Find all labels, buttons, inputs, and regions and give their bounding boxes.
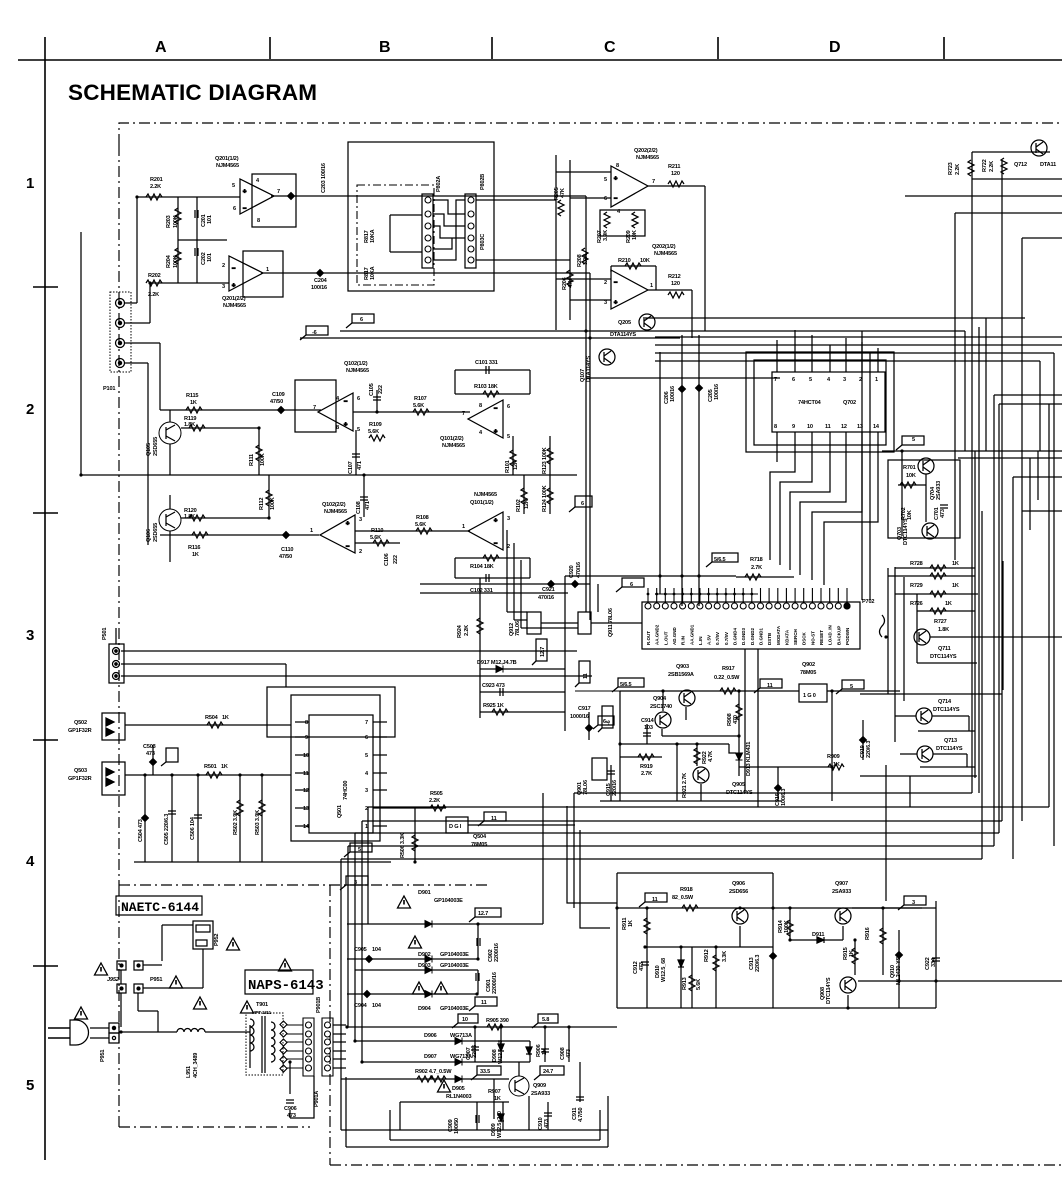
svg-text:AA.GND2: AA.GND2 [655, 624, 660, 645]
svg-text:8: 8 [336, 425, 339, 431]
svg-text:NJM4565: NJM4565 [216, 163, 239, 169]
svg-text:T901: T901 [256, 1002, 268, 1008]
svg-text:R123 100K: R123 100K [542, 447, 548, 474]
svg-text:11: 11 [652, 897, 658, 903]
svg-text:P802A: P802A [436, 176, 442, 192]
svg-text:2SC1740: 2SC1740 [650, 704, 672, 710]
svg-text:DTC114YS: DTC114YS [826, 977, 832, 1004]
svg-text:C921: C921 [542, 587, 555, 593]
svg-text:GP104003E: GP104003E [440, 952, 469, 958]
svg-text:78L06: 78L06 [515, 621, 521, 636]
svg-text:R917: R917 [722, 666, 735, 672]
svg-text:P901A: P901A [314, 1091, 320, 1107]
svg-text:C204: C204 [314, 278, 328, 284]
svg-text:5: 5 [850, 684, 853, 690]
svg-text:R504: R504 [205, 715, 219, 721]
svg-text:2200/16: 2200/16 [494, 943, 500, 962]
svg-text:NJM4565: NJM4565 [636, 155, 659, 161]
svg-text:9: 9 [305, 735, 308, 741]
svg-text:NJM4565: NJM4565 [474, 492, 497, 498]
svg-text:100K: 100K [784, 920, 790, 933]
svg-text:D.GND4: D.GND4 [733, 628, 738, 645]
svg-text:473: 473 [146, 751, 155, 757]
svg-text:Q102(2/2): Q102(2/2) [322, 502, 346, 508]
svg-text:L951: L951 [186, 1066, 192, 1078]
svg-text:L.OUT: L.OUT [663, 631, 668, 645]
svg-text:4.7/50: 4.7/50 [578, 1108, 584, 1122]
svg-text:2SB1569A: 2SB1569A [668, 672, 694, 678]
svg-text:DSTB: DSTB [767, 632, 772, 645]
svg-text:120: 120 [671, 281, 680, 287]
svg-text:13: 13 [857, 424, 863, 430]
svg-text:47K: 47K [568, 278, 574, 288]
svg-text:C914: C914 [641, 718, 655, 724]
svg-text:7: 7 [774, 377, 777, 383]
svg-text:2.2K: 2.2K [989, 161, 995, 172]
svg-text:D903: D903 [418, 963, 431, 969]
svg-text:NJM4565: NJM4565 [324, 509, 347, 515]
svg-text:R921 2.7K: R921 2.7K [682, 773, 688, 798]
svg-text:Q202(1/2): Q202(1/2) [652, 244, 676, 250]
svg-text:2SA933: 2SA933 [832, 889, 851, 895]
svg-text:R.OUT: R.OUT [646, 631, 651, 645]
svg-text:22000/16: 22000/16 [492, 972, 498, 994]
svg-text:1.8K: 1.8K [184, 422, 195, 428]
svg-text:R912: R912 [704, 949, 710, 962]
svg-text:103: 103 [644, 725, 653, 731]
svg-text:Q702: Q702 [843, 400, 856, 406]
svg-text:GP104003E: GP104003E [440, 1006, 469, 1012]
svg-text:C923 473: C923 473 [482, 683, 505, 689]
svg-text:6: 6 [507, 404, 510, 410]
svg-text:R115: R115 [186, 393, 198, 399]
svg-text:R503 3.9K: R503 3.9K [255, 810, 261, 835]
svg-text:2SD655: 2SD655 [153, 523, 159, 542]
svg-text:R502 3.9K: R502 3.9K [233, 810, 239, 835]
svg-text:C109: C109 [272, 392, 285, 398]
svg-text:P951: P951 [100, 1050, 106, 1062]
svg-text:5.6K: 5.6K [696, 979, 702, 990]
svg-text:3.9K: 3.9K [603, 230, 609, 241]
svg-text:B: B [379, 39, 391, 56]
svg-text:5.8: 5.8 [542, 1017, 549, 1023]
svg-text:1K: 1K [192, 552, 199, 558]
svg-text:R108: R108 [416, 515, 429, 521]
svg-text:222: 222 [378, 385, 384, 394]
svg-text:W12.5_68: W12.5_68 [661, 958, 667, 982]
svg-text:R905 390: R905 390 [486, 1018, 509, 1024]
svg-text:11: 11 [767, 683, 773, 689]
svg-text:2: 2 [507, 544, 510, 550]
svg-text:5: 5 [604, 177, 607, 183]
svg-text:3: 3 [604, 300, 607, 306]
svg-text:R501: R501 [204, 764, 217, 770]
svg-text:47K: 47K [560, 188, 566, 198]
svg-text:R728: R728 [910, 561, 923, 567]
svg-text:5: 5 [26, 1077, 34, 1094]
svg-text:1K: 1K [494, 1096, 501, 1102]
svg-text:22/35: 22/35 [472, 1045, 478, 1058]
svg-text:12.7: 12.7 [540, 647, 546, 657]
svg-text:2.2K: 2.2K [150, 184, 161, 190]
svg-text:8: 8 [616, 163, 619, 169]
svg-text:C905: C905 [354, 947, 367, 953]
svg-text:GP104003E: GP104003E [440, 963, 469, 969]
svg-text:WG713A: WG713A [450, 1033, 472, 1039]
svg-text:5/6.5: 5/6.5 [714, 557, 726, 563]
svg-text:1: 1 [650, 283, 653, 289]
svg-text:5: 5 [507, 434, 510, 440]
svg-text:R109: R109 [369, 422, 382, 428]
svg-text:5: 5 [809, 377, 812, 383]
svg-text:2: 2 [604, 280, 607, 286]
svg-text:1K: 1K [849, 950, 855, 957]
svg-text:3.3K: 3.3K [722, 951, 728, 962]
svg-text:74HC00: 74HC00 [343, 781, 349, 800]
svg-text:D905: D905 [452, 1086, 465, 1092]
svg-text:D904: D904 [418, 1006, 432, 1012]
svg-text:100/50: 100/50 [454, 1118, 460, 1134]
svg-text:3: 3 [365, 788, 368, 794]
svg-text:Q713: Q713 [944, 738, 957, 744]
svg-text:473: 473 [639, 962, 645, 971]
svg-text:100K: 100K [260, 453, 266, 466]
svg-text:DTC114YS: DTC114YS [936, 746, 963, 752]
svg-text:1: 1 [875, 377, 878, 383]
svg-text:Q902: Q902 [802, 662, 815, 668]
svg-text:C906: C906 [284, 1106, 297, 1112]
svg-text:5: 5 [912, 437, 915, 443]
svg-text:10KA: 10KA [370, 266, 376, 280]
svg-text:GP1F32R: GP1F32R [68, 728, 92, 734]
svg-text:NJM4565: NJM4565 [346, 368, 369, 374]
svg-text:Q105: Q105 [146, 443, 152, 456]
svg-text:D913 KLM431: D913 KLM431 [746, 742, 752, 776]
svg-text:100K: 100K [173, 215, 179, 228]
svg-text:11: 11 [481, 1000, 487, 1006]
svg-text:A: A [155, 39, 167, 56]
svg-text:101: 101 [207, 215, 213, 224]
svg-text:AD.GND: AD.GND [672, 627, 677, 645]
svg-text:1K: 1K [945, 601, 952, 607]
svg-text:120: 120 [671, 171, 680, 177]
svg-text:104: 104 [372, 1003, 382, 1009]
svg-text:6: 6 [365, 735, 368, 741]
svg-text:5.6K: 5.6K [413, 403, 424, 409]
svg-text:NO-ST: NO-ST [810, 631, 815, 645]
svg-text:Q202(2/2): Q202(2/2) [634, 148, 658, 154]
svg-text:10KA: 10KA [370, 229, 376, 243]
svg-text:13: 13 [303, 806, 309, 812]
svg-text:2.2K: 2.2K [464, 625, 470, 636]
svg-text:100/6.3: 100/6.3 [781, 789, 787, 806]
svg-text:2SA933: 2SA933 [936, 481, 942, 500]
svg-text:R718: R718 [750, 557, 763, 563]
svg-text:5: 5 [357, 427, 360, 433]
svg-text:2.2K: 2.2K [955, 164, 961, 175]
svg-text:222: 222 [393, 555, 399, 564]
svg-text:D906: D906 [424, 1033, 437, 1039]
svg-text:24.7: 24.7 [543, 1069, 553, 1075]
svg-text:Q714: Q714 [938, 699, 952, 705]
svg-text:C504 473: C504 473 [138, 819, 144, 842]
svg-text:L.IN: L.IN [698, 637, 703, 646]
svg-text:2SD656: 2SD656 [729, 889, 748, 895]
svg-text:C503: C503 [143, 744, 156, 750]
svg-text:1K: 1K [190, 400, 197, 406]
svg-text:1: 1 [266, 267, 269, 273]
svg-text:C105: C105 [369, 383, 375, 396]
svg-text:3: 3 [26, 627, 34, 644]
svg-text:DTC114YS: DTC114YS [903, 518, 909, 545]
svg-text:Q907: Q907 [835, 881, 848, 887]
svg-text:R203: R203 [166, 215, 172, 228]
svg-text:NAPS-6143: NAPS-6143 [248, 978, 324, 994]
svg-text:100K: 100K [270, 497, 276, 510]
svg-text:R211: R211 [668, 164, 680, 170]
svg-text:P101: P101 [103, 386, 115, 392]
svg-text:NJM4565: NJM4565 [223, 303, 246, 309]
svg-text:R201: R201 [150, 177, 163, 183]
svg-text:471: 471 [365, 501, 371, 510]
svg-text:334: 334 [931, 957, 937, 967]
svg-text:12K: 12K [524, 499, 530, 509]
svg-text:AA.GND1: AA.GND1 [689, 624, 694, 645]
svg-text:1: 1 [26, 175, 34, 192]
svg-text:R.IN: R.IN [681, 636, 686, 645]
svg-text:R701: R701 [903, 465, 916, 471]
svg-text:78M05: 78M05 [471, 842, 487, 848]
svg-text:W12.5_240: W12.5_240 [497, 1111, 503, 1138]
svg-text:2SA933: 2SA933 [531, 1091, 550, 1097]
svg-text:A.5V: A.5V [707, 635, 712, 645]
svg-text:Q502: Q502 [74, 720, 87, 726]
svg-text:R722: R722 [982, 159, 988, 172]
svg-text:P802B: P802B [480, 174, 486, 190]
svg-text:473: 473 [566, 1049, 572, 1058]
svg-text:5/6.5: 5/6.5 [620, 682, 632, 688]
svg-text:100/16: 100/16 [714, 384, 720, 400]
svg-text:R202: R202 [148, 273, 161, 279]
svg-text:Q101(1/2): Q101(1/2) [470, 500, 494, 506]
svg-text:12K: 12K [513, 460, 519, 470]
svg-text:R902 4.7_0.5W: R902 4.7_0.5W [415, 1069, 452, 1075]
svg-text:Q711: Q711 [938, 646, 951, 652]
svg-text:6: 6 [233, 206, 236, 212]
svg-text:D901: D901 [418, 890, 431, 896]
svg-text:4CH_3489: 4CH_3489 [193, 1053, 199, 1078]
svg-text:471: 471 [357, 461, 363, 470]
svg-text:7: 7 [462, 411, 465, 417]
svg-text:GP1F32R: GP1F32R [68, 776, 92, 782]
svg-text:C107: C107 [348, 461, 354, 474]
svg-text:10K: 10K [632, 230, 638, 240]
svg-text:R918: R918 [680, 887, 693, 893]
svg-text:Q102(1/2): Q102(1/2) [344, 361, 368, 367]
svg-text:GP104003E: GP104003E [434, 898, 463, 904]
svg-text:7: 7 [277, 189, 280, 195]
svg-text:5.6K: 5.6K [415, 522, 426, 528]
svg-text:473: 473 [940, 509, 946, 518]
svg-text:R924: R924 [457, 624, 463, 638]
svg-text:2: 2 [859, 377, 862, 383]
svg-text:KDATA: KDATA [784, 629, 789, 645]
svg-text:P901B: P901B [316, 997, 322, 1013]
svg-text:C: C [604, 39, 616, 56]
svg-text:6: 6 [604, 196, 607, 202]
svg-text:R107: R107 [414, 396, 427, 402]
svg-text:R726: R726 [910, 601, 923, 607]
svg-text:DTA114YS: DTA114YS [610, 332, 636, 338]
svg-text:R111: R111 [249, 454, 255, 466]
svg-text:SERCH: SERCH [793, 629, 798, 645]
svg-text:33.5: 33.5 [480, 1069, 490, 1075]
svg-text:Q205: Q205 [618, 320, 631, 326]
svg-text:1 G 0: 1 G 0 [803, 693, 816, 699]
svg-text:NJM4565: NJM4565 [654, 251, 677, 257]
svg-text:3: 3 [359, 517, 362, 523]
svg-text:MODATA: MODATA [776, 625, 781, 645]
svg-text:R909: R909 [827, 754, 840, 760]
svg-text:Q903: Q903 [676, 664, 689, 670]
svg-text:D917 M12,J4.7B: D917 M12,J4.7B [477, 660, 517, 666]
svg-text:2.7K: 2.7K [641, 771, 652, 777]
svg-text:DTC114YS: DTC114YS [930, 654, 957, 660]
svg-text:R723: R723 [948, 162, 954, 175]
svg-text:5.6K: 5.6K [370, 535, 381, 541]
svg-text:2: 2 [26, 401, 34, 418]
svg-text:Q201(2/2): Q201(2/2) [222, 296, 246, 302]
svg-text:10: 10 [303, 753, 309, 759]
svg-text:1K: 1K [952, 583, 959, 589]
svg-text:RESET: RESET [819, 630, 824, 645]
svg-text:-6: -6 [312, 330, 317, 336]
svg-text:0.22_0.5W: 0.22_0.5W [714, 675, 740, 681]
svg-text:D907: D907 [424, 1054, 437, 1060]
svg-text:D: D [829, 39, 841, 56]
svg-text:8: 8 [305, 720, 308, 726]
svg-text:0.7/5V: 0.7/5V [724, 632, 729, 645]
svg-text:-6: -6 [606, 720, 612, 725]
svg-text:R110: R110 [371, 528, 383, 534]
svg-text:3: 3 [843, 377, 846, 383]
svg-text:C101 331: C101 331 [475, 360, 498, 366]
svg-text:D.GND3: D.GND3 [741, 628, 746, 645]
svg-text:104: 104 [372, 947, 382, 953]
svg-text:Q501: Q501 [337, 805, 343, 818]
svg-text:2.2K: 2.2K [429, 798, 440, 804]
svg-text:R112: R112 [259, 498, 265, 510]
svg-text:10: 10 [807, 424, 813, 430]
svg-text:P501: P501 [102, 628, 108, 640]
svg-text:3: 3 [912, 900, 915, 906]
svg-text:2: 2 [222, 263, 225, 269]
svg-text:7: 7 [652, 179, 655, 185]
svg-text:8: 8 [257, 218, 260, 224]
svg-text:2: 2 [359, 549, 362, 555]
svg-text:470/16: 470/16 [538, 595, 554, 601]
svg-text:3.9K: 3.9K [583, 254, 589, 265]
svg-text:Q503: Q503 [74, 768, 87, 774]
svg-text:R919: R919 [640, 764, 653, 770]
svg-text:W12.5_68: W12.5_68 [498, 1040, 504, 1064]
svg-text:10K: 10K [906, 473, 916, 479]
svg-text:MPT-1311: MPT-1311 [252, 1010, 272, 1015]
svg-text:D911: D911 [812, 932, 824, 938]
svg-text:1.8K: 1.8K [184, 514, 195, 520]
svg-text:6: 6 [792, 377, 795, 383]
svg-text:R124 100K: R124 100K [542, 485, 548, 512]
svg-text:Q201(1/2): Q201(1/2) [215, 156, 239, 162]
svg-text:5: 5 [365, 753, 368, 759]
svg-text:3: 3 [222, 284, 225, 290]
svg-text:Q504: Q504 [473, 834, 487, 840]
svg-text:9: 9 [792, 424, 795, 430]
svg-text:C506 104: C506 104 [190, 816, 196, 840]
svg-text:Q106: Q106 [146, 529, 152, 542]
svg-text:2SD655: 2SD655 [153, 437, 159, 456]
svg-text:P951: P951 [150, 977, 162, 983]
svg-text:220/6.3: 220/6.3 [755, 955, 761, 972]
svg-text:RL1N4003: RL1N4003 [446, 1094, 472, 1100]
svg-text:74HCT04: 74HCT04 [798, 400, 822, 406]
svg-text:12: 12 [303, 788, 309, 794]
svg-text:1K: 1K [222, 715, 229, 721]
svg-text:1000/16: 1000/16 [570, 714, 589, 720]
svg-text:1K: 1K [833, 762, 840, 768]
svg-text:1: 1 [462, 524, 465, 530]
svg-text:1: 1 [310, 528, 313, 534]
svg-text:8: 8 [774, 424, 777, 430]
svg-text:R505: R505 [430, 791, 443, 797]
svg-text:6: 6 [360, 317, 363, 323]
svg-text:6: 6 [357, 396, 360, 402]
svg-text:7: 7 [313, 405, 316, 411]
svg-text:D G I: D G I [449, 824, 462, 830]
svg-text:C110: C110 [281, 547, 293, 553]
svg-text:R729: R729 [910, 583, 923, 589]
svg-text:10K: 10K [640, 258, 650, 264]
svg-text:100/16: 100/16 [670, 386, 676, 402]
svg-text:NJM4565: NJM4565 [442, 443, 465, 449]
svg-text:100/16: 100/16 [311, 285, 327, 291]
svg-text:2.2K: 2.2K [148, 292, 159, 298]
svg-text:J952: J952 [107, 977, 120, 983]
svg-text:R103 18K: R103 18K [474, 384, 498, 390]
svg-text:78M05: 78M05 [800, 670, 816, 676]
svg-text:R102: R102 [516, 499, 522, 512]
svg-text:P952: P952 [214, 934, 220, 946]
svg-text:0.7/5V: 0.7/5V [715, 632, 720, 645]
svg-text:C505 220/6.3: C505 220/6.3 [164, 814, 170, 845]
svg-text:7: 7 [365, 720, 368, 726]
svg-text:47/50: 47/50 [279, 554, 292, 560]
svg-text:10K: 10K [907, 510, 913, 520]
svg-text:4.7K: 4.7K [708, 751, 714, 762]
svg-text:PODWN: PODWN [845, 628, 850, 645]
svg-text:C203 100/16: C203 100/16 [321, 163, 327, 193]
svg-text:47/50: 47/50 [270, 399, 283, 405]
svg-text:SCHEMATIC DIAGRAM: SCHEMATIC DIAGRAM [68, 80, 317, 105]
svg-text:1K: 1K [221, 764, 228, 770]
svg-text:C106: C106 [384, 553, 390, 566]
svg-text:R116: R116 [188, 545, 200, 551]
svg-text:100K: 100K [173, 255, 179, 268]
svg-text:473: 473 [544, 1119, 550, 1128]
svg-text:1.8K: 1.8K [938, 627, 949, 633]
svg-text:R925 1K: R925 1K [483, 703, 504, 709]
svg-text:11: 11 [825, 424, 831, 430]
